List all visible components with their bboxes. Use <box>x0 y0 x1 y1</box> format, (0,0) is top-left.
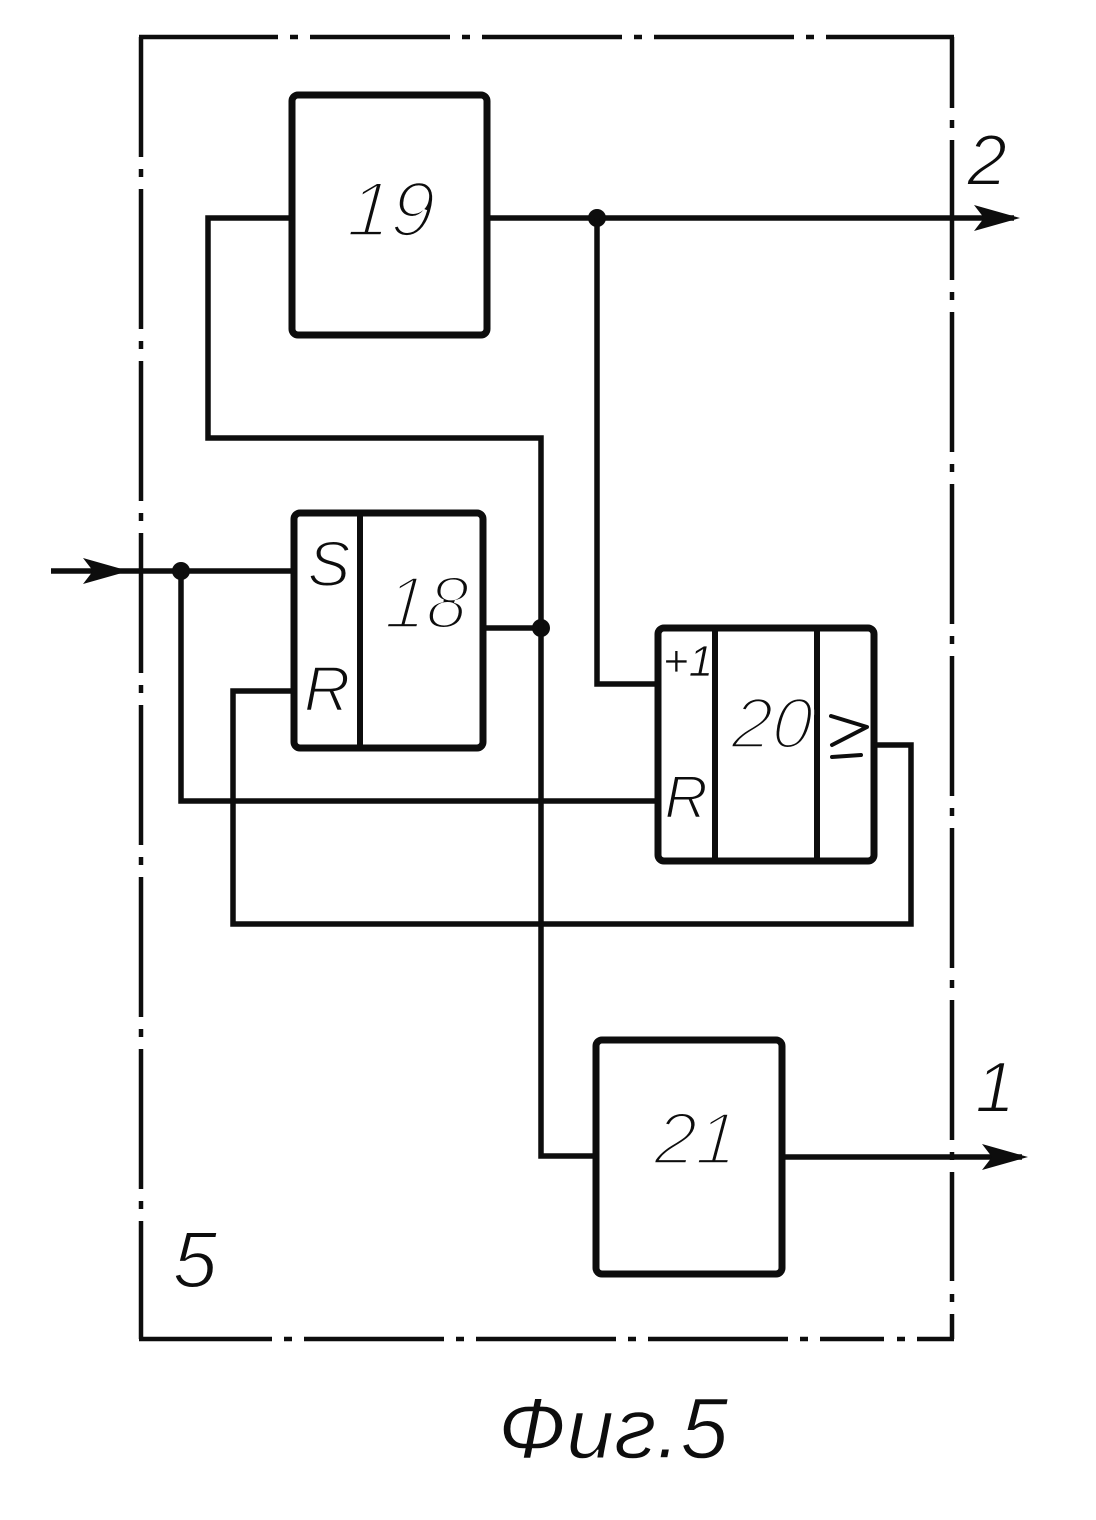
block 21 <box>596 1040 782 1274</box>
wire: output of 19 to external output 2 <box>487 215 1014 221</box>
dash-dot boundary of block 5: right edge <box>950 37 955 1339</box>
svg-text:Фиг.5: Фиг.5 <box>498 1381 729 1477</box>
dash-dot boundary of block 5: left edge <box>139 37 144 1339</box>
wire: input node down to R of 20 <box>181 571 658 801</box>
svg-text:+1: +1 <box>663 637 713 686</box>
block 18 (RS flip-flop) <box>294 513 483 748</box>
svg-text:1: 1 <box>975 1048 1015 1128</box>
junction: input node <box>172 562 190 580</box>
svg-text:20: 20 <box>729 684 816 764</box>
svg-text:R: R <box>664 764 707 831</box>
arrowhead output 1 <box>982 1144 1028 1170</box>
junction: output node of 18 <box>532 619 550 637</box>
block 20 (counter) <box>658 628 874 861</box>
block 19 <box>292 95 487 335</box>
svg-text:R: R <box>304 653 350 725</box>
wire: external input into S of 18 <box>51 568 294 574</box>
dash-dot boundary of block 5: top edge <box>139 35 954 40</box>
wire: node of 18 down to input of 21 <box>541 628 596 1156</box>
input arrowhead <box>83 558 129 584</box>
dash-dot boundary of block 5: bottom edge <box>139 1337 954 1342</box>
wire: node of 18 up and around to input of 19 <box>208 218 541 628</box>
wire: output of 20 looping back to R of 18 <box>233 691 911 924</box>
junction: output node of 19 <box>588 209 606 227</box>
wire: output of 21 to external output 1 <box>782 1154 1022 1160</box>
svg-text:S: S <box>308 528 351 600</box>
arrowhead output 2 <box>974 205 1020 231</box>
svg-text:5: 5 <box>173 1215 218 1304</box>
svg-text:18: 18 <box>383 561 471 644</box>
svg-text:21: 21 <box>651 1097 740 1180</box>
pin label >= (comparator output) <box>831 716 867 757</box>
svg-text:2: 2 <box>966 121 1007 201</box>
wire: output of 18 to node <box>483 625 541 631</box>
svg-text:19: 19 <box>345 165 438 253</box>
wire: node of 19 down to +1 of 20 <box>597 218 658 684</box>
